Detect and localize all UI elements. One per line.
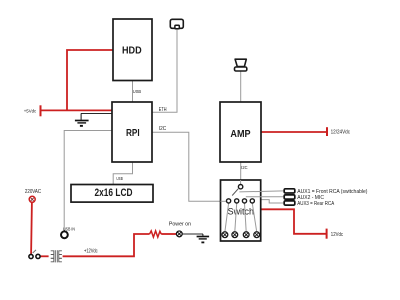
svg-text:USB: USB (133, 89, 141, 94)
svg-text:ETH: ETH (159, 107, 167, 113)
svg-text:220VAC: 220VAC (25, 189, 42, 195)
svg-text:USB: USB (116, 176, 123, 181)
svg-text:12/24Vdc: 12/24Vdc (331, 129, 351, 135)
svg-text:USB IN: USB IN (63, 226, 75, 232)
svg-text:2x16 LCD: 2x16 LCD (95, 187, 133, 199)
svg-text:+12Vdc: +12Vdc (84, 248, 98, 254)
svg-text:Power on: Power on (169, 222, 191, 228)
svg-text:AUX3 = Rear RCA: AUX3 = Rear RCA (297, 201, 335, 207)
svg-text:Switch: Switch (228, 206, 254, 216)
svg-text:HDD: HDD (122, 45, 142, 57)
svg-text:RPI: RPI (126, 126, 140, 138)
svg-text:I2C: I2C (159, 126, 167, 132)
svg-text:+5Vdc: +5Vdc (24, 108, 37, 113)
svg-text:AMP: AMP (230, 128, 251, 140)
svg-text:AUX2 - MIC: AUX2 - MIC (297, 195, 324, 201)
svg-text:I2C: I2C (241, 165, 248, 170)
svg-text:12Vdc: 12Vdc (331, 232, 344, 237)
